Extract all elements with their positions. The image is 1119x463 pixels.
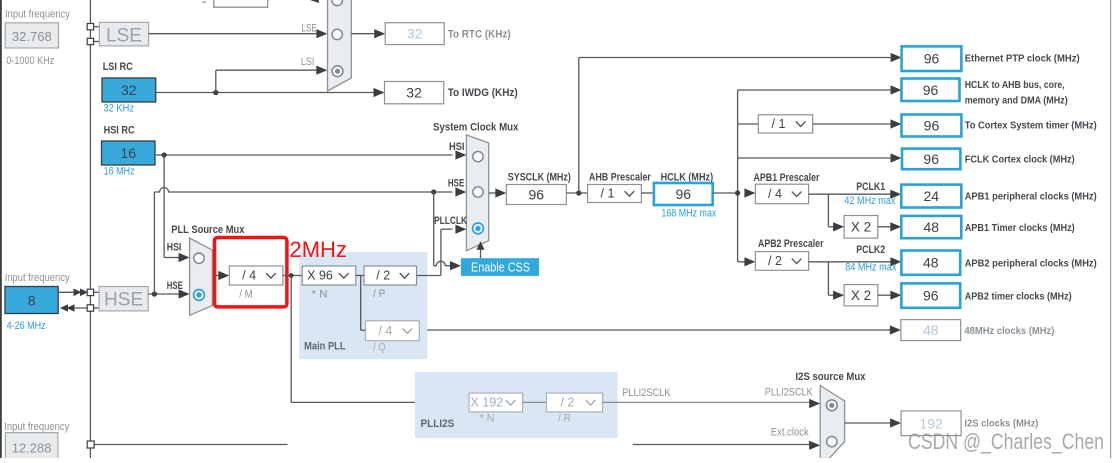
- svg-text:APB2 Prescaler: APB2 Prescaler: [758, 238, 824, 250]
- APB2 multiplier X2 box: [844, 285, 878, 306]
- svg-text:PLLI2SCLK: PLLI2SCLK: [622, 387, 671, 399]
- sysmux radio PLLCLK (selected): [473, 223, 484, 234]
- svg-text:4-26 MHz: 4-26 MHz: [7, 320, 46, 332]
- wire APB2 branch to X2: [828, 262, 844, 300]
- LSE port squares: [87, 24, 99, 45]
- svg-text:Ext.clock: Ext.clock: [771, 427, 809, 439]
- svg-text:APB1 Timer clocks (MHz): APB1 Timer clocks (MHz): [965, 222, 1075, 234]
- pin label HSE (PLL): [167, 280, 183, 292]
- wire LSI branch to RTC mux: [216, 66, 327, 93]
- wire APB2 prescaler to PCLK2: [809, 257, 902, 266]
- label APB1 Timer clocks (MHz): [965, 222, 1075, 234]
- title PLL Source Mux: [171, 224, 245, 236]
- title System Clock Mux: [433, 121, 519, 133]
- svg-text:X 192: X 192: [470, 396, 503, 410]
- wire HSI to system clock mux: [155, 150, 466, 159]
- pin label HSE: [448, 177, 465, 189]
- net label LSI: [301, 56, 315, 68]
- PLL source mux body: [190, 238, 213, 315]
- wire to HCLK AHB row: [738, 85, 902, 94]
- arrow into IWDG box: [374, 88, 385, 97]
- svg-text:HCLK to AHB bus, core,: HCLK to AHB bus, core,: [965, 79, 1065, 91]
- svg-text:HSI: HSI: [449, 141, 465, 153]
- I2S value box 192: [901, 411, 961, 436]
- APB2 prescaler dropdown /2: [755, 252, 808, 271]
- AHB bus vertical wire: [737, 90, 739, 262]
- wire to FCLK row: [738, 153, 902, 162]
- svg-text:/ 2: / 2: [560, 396, 574, 410]
- label HSI RC: [104, 125, 135, 137]
- svg-text:96: 96: [924, 118, 940, 134]
- svg-text:/ R: / R: [558, 412, 571, 424]
- wire SYSCLK to AHB prescaler: [566, 192, 587, 194]
- svg-text:/ 2: / 2: [376, 269, 390, 283]
- svg-text:System Clock Mux: System Clock Mux: [433, 121, 519, 133]
- svg-text:/ 4: / 4: [242, 269, 256, 283]
- svg-text:PLLCLK: PLLCLK: [434, 215, 467, 227]
- APB1 timer value box 48: [901, 216, 961, 238]
- svg-text:48: 48: [923, 255, 939, 271]
- junction HCLK-bus: [735, 190, 740, 195]
- svg-text:84 MHz max: 84 MHz max: [845, 261, 896, 273]
- left connector rail: [89, 0, 91, 458]
- svg-text:HSE: HSE: [167, 280, 183, 292]
- svg-text:Ethernet PTP clock (MHz): Ethernet PTP clock (MHz): [965, 53, 1080, 65]
- oscillator HSI RC box 16: [102, 141, 156, 165]
- partial arrow into RTC mux: [310, 0, 319, 3]
- label To RTC (KHz): [448, 29, 511, 41]
- *N multiplier dropdown X96: [302, 266, 356, 285]
- RTC mux radio LSE: [332, 29, 342, 39]
- wire ext clock segment 1: [94, 444, 287, 446]
- label 42 MHz max: [844, 195, 895, 207]
- svg-text:Input frequency: Input frequency: [5, 9, 70, 21]
- svg-text:LSE: LSE: [301, 23, 317, 35]
- /M divider dropdown: [229, 266, 283, 285]
- label APB1 peripheral clocks (MHz): [965, 191, 1097, 203]
- label PLLI2S: [421, 418, 455, 430]
- svg-text:48MHz clocks (MHz): 48MHz clocks (MHz): [964, 325, 1054, 337]
- right panel border: [1110, 0, 1111, 458]
- svg-text:X 2: X 2: [851, 220, 871, 235]
- wire Q output to 48MHz box: [419, 325, 901, 334]
- sysmux radio HSI: [473, 151, 483, 161]
- label SYSCLK (MHz): [508, 171, 571, 183]
- label HCLK to AHB bus core memory and DMA: [965, 79, 1068, 107]
- /Q divider dropdown (disabled): [366, 321, 420, 341]
- wire HSI branch down to PLL mux: [164, 155, 190, 262]
- svg-text:96: 96: [924, 51, 940, 67]
- label Main PLL: [304, 341, 346, 353]
- svg-text:FCLK Cortex clock (MHz): FCLK Cortex clock (MHz): [965, 153, 1075, 165]
- label 84 MHz max: [845, 261, 896, 273]
- Cortex prescaler dropdown /1: [758, 115, 812, 133]
- arrow into APB1 prescaler: [744, 188, 755, 197]
- svg-text:0-1000 KHz: 0-1000 KHz: [6, 55, 54, 67]
- svg-text:Input frequency: Input frequency: [5, 272, 70, 284]
- label Input frequency (HSE): [5, 272, 70, 284]
- svg-text:/ 4: / 4: [768, 187, 782, 201]
- svg-text:To Cortex System timer (MHz): To Cortex System timer (MHz): [965, 120, 1097, 132]
- I2S source mux body: [820, 386, 844, 459]
- label 168 MHz max: [661, 208, 716, 220]
- svg-text:16: 16: [120, 145, 136, 161]
- svg-text:12.288: 12.288: [12, 441, 52, 456]
- label 4-26 MHz: [7, 320, 46, 332]
- net label PCLK2: [856, 244, 885, 256]
- label / P: [373, 288, 385, 300]
- wire X2 to APB1 timer box: [878, 222, 902, 231]
- svg-text:memory and DMA (MHz): memory and DMA (MHz): [965, 94, 1068, 106]
- svg-text:AHB Prescaler: AHB Prescaler: [589, 171, 652, 183]
- HSE port squares: [87, 289, 99, 311]
- svg-text:96: 96: [923, 82, 939, 98]
- svg-text:/ 1: / 1: [601, 187, 615, 201]
- PLL mux radio HSE (selected): [194, 290, 205, 301]
- wire /P to PLLCLK input: [417, 225, 467, 276]
- svg-text:/ P: / P: [373, 288, 385, 300]
- wire Cortex prescaler to box: [813, 119, 902, 128]
- wire sysmux to SYSCLK box: [489, 188, 507, 197]
- annotation 2MHz: [290, 237, 347, 262]
- svg-text:2MHz: 2MHz: [290, 237, 347, 262]
- wire /M to *N: [283, 275, 302, 277]
- svg-text:APB1 Prescaler: APB1 Prescaler: [754, 172, 821, 184]
- PLLI2S *N multiplier dropdown X192: [469, 393, 523, 412]
- junction HSI branch: [162, 152, 167, 157]
- svg-text:Main PLL: Main PLL: [304, 341, 346, 353]
- svg-text:96: 96: [923, 151, 939, 167]
- svg-text:96: 96: [676, 186, 692, 202]
- sysmux radio HSE: [473, 187, 483, 197]
- Ethernet PTP value box 96: [902, 46, 962, 71]
- wire AHB prescaler to HCLK box: [641, 192, 654, 194]
- label 16 MHz: [104, 165, 135, 177]
- /R divider dropdown (disabled): [546, 393, 602, 412]
- label Input frequency (I2S ext): [4, 421, 69, 433]
- wire PLL input down to PLLI2S: [291, 276, 469, 403]
- svg-text:HSE: HSE: [448, 177, 465, 189]
- SYSCLK value box 96: [506, 185, 566, 205]
- wire /R to I2S mux: [603, 399, 821, 408]
- label 32 KHz: [104, 103, 135, 115]
- APB2 timer value box 96: [901, 283, 960, 307]
- svg-text:CSDN @_Charles_Chen: CSDN @_Charles_Chen: [908, 429, 1104, 454]
- junction HSE at sysmux: [431, 189, 436, 194]
- svg-text:24: 24: [924, 188, 940, 204]
- junction SYSCLK: [576, 190, 581, 195]
- svg-text:SYSCLK (MHz): SYSCLK (MHz): [508, 171, 571, 183]
- Cortex timer value box 96: [902, 115, 962, 137]
- I2S mux radio PLLI2SCLK (selected): [826, 400, 837, 411]
- svg-text:To RTC (KHz): To RTC (KHz): [448, 29, 511, 41]
- label To IWDG (KHz): [448, 87, 518, 99]
- LSE input frequency box 32.768: [5, 23, 58, 48]
- APB2 peripheral value box 48: [901, 251, 960, 275]
- label APB1 Prescaler: [754, 172, 821, 184]
- svg-text:PLLI2S: PLLI2S: [421, 418, 455, 430]
- pin label PLLI2SCLK: [765, 387, 814, 399]
- left panel border: [0, 0, 2, 458]
- RTC mux radio HSE_RTC (partial): [332, 0, 342, 6]
- svg-text:42 MHz max: 42 MHz max: [844, 195, 895, 207]
- pin label HSI (PLL): [167, 241, 182, 253]
- AHB prescaler dropdown /1: [588, 185, 642, 203]
- I2S ext input frequency box 12.288: [5, 433, 58, 460]
- pin label Ext.clock: [771, 427, 809, 439]
- /P divider dropdown: [364, 266, 417, 285]
- oscillator HSE: [99, 287, 148, 311]
- HSE input frequency box 8: [5, 287, 58, 314]
- svg-text:/ 2: / 2: [768, 254, 782, 268]
- svg-text:16 MHz: 16 MHz: [104, 165, 135, 177]
- label * N: [312, 289, 328, 301]
- junction PLL input: [289, 273, 294, 278]
- APB1 prescaler dropdown /4: [755, 184, 808, 204]
- svg-text:PCLK2: PCLK2: [856, 244, 885, 256]
- svg-text:HSE: HSE: [104, 290, 143, 311]
- svg-text:APB2 peripheral clocks (MHz): APB2 peripheral clocks (MHz): [965, 258, 1097, 270]
- partial label fragment: [202, 1, 206, 3]
- APB1 multiplier X2 box: [844, 216, 878, 239]
- label / Q: [373, 342, 386, 354]
- highlight red box: [215, 238, 287, 307]
- wire to Cortex timer prescaler: [738, 123, 759, 125]
- svg-text:* N: * N: [480, 412, 495, 424]
- wire *N to /P: [356, 275, 364, 277]
- HSE RTC divider box (partial, top edge): [214, 0, 268, 7]
- watermark CSDN: [908, 429, 1104, 454]
- wire APB1 prescaler to PCLK1: [809, 190, 902, 199]
- 48MHz value box 48: [901, 320, 961, 341]
- svg-text:32 KHz: 32 KHz: [104, 103, 135, 115]
- svg-text:PCLK1: PCLK1: [856, 181, 885, 193]
- RTC/LSE mux body: [328, 0, 352, 91]
- svg-text:Input frequency: Input frequency: [4, 421, 69, 433]
- svg-text:HSI: HSI: [167, 241, 182, 253]
- svg-text:32: 32: [121, 82, 137, 98]
- label 0-1000 KHz: [6, 55, 54, 67]
- label APB2 timer clocks (MHz): [965, 291, 1072, 303]
- I2S ext port square: [87, 441, 94, 448]
- wire X2 to APB2 timer box: [878, 291, 902, 300]
- svg-text:PLL Source Mux: PLL Source Mux: [171, 224, 245, 236]
- PLL mux radio HSI: [194, 253, 204, 263]
- label APB2 Prescaler: [758, 238, 824, 250]
- svg-text:LSE: LSE: [106, 26, 142, 47]
- svg-text:96: 96: [923, 288, 939, 304]
- wire LSE to RTC mux: [149, 29, 328, 38]
- svg-text:/ 1: / 1: [772, 117, 786, 131]
- svg-text:32: 32: [406, 85, 422, 101]
- HCLK value box 96: [654, 183, 713, 205]
- HCLK AHB value box 96: [902, 79, 960, 102]
- svg-text:X 96: X 96: [307, 269, 333, 283]
- label Ethernet PTP clock (MHz): [965, 53, 1080, 65]
- wire RTC mux to RTC box: [351, 29, 385, 38]
- svg-text:96: 96: [529, 187, 545, 203]
- wire HCLK to AHB bus: [713, 192, 738, 194]
- svg-text:/ M: / M: [239, 289, 253, 301]
- button Enable CSS: [461, 258, 539, 276]
- wire HSE branch up to system clock mux: [154, 187, 466, 294]
- svg-text:APB2 timer clocks (MHz): APB2 timer clocks (MHz): [965, 291, 1072, 303]
- label APB2 peripheral clocks (MHz): [965, 258, 1097, 270]
- HSE out/in double arrows: [58, 289, 88, 312]
- RTC mux radio LSI (selected): [332, 66, 343, 77]
- svg-text:PLLI2SCLK: PLLI2SCLK: [765, 387, 814, 399]
- svg-text:LSI: LSI: [301, 56, 315, 68]
- oscillator LSI RC box 32: [102, 78, 156, 102]
- label * N (PLLI2S): [480, 412, 495, 424]
- svg-text:8: 8: [28, 293, 36, 309]
- label Input frequency (LSE): [5, 9, 70, 21]
- svg-text:HCLK (MHz): HCLK (MHz): [661, 171, 714, 183]
- To RTC value box 32: [385, 23, 444, 45]
- net label PLLI2SCLK (mid): [622, 387, 671, 399]
- APB1 peripheral value box 24: [901, 185, 961, 208]
- label FCLK Cortex clock (MHz): [965, 153, 1075, 165]
- label HCLK (MHz): [661, 171, 714, 183]
- junction LSI branch: [213, 90, 218, 95]
- wire LSI to IWDG: [156, 92, 375, 94]
- pin label HSI: [449, 141, 465, 153]
- label To Cortex System timer (MHz): [965, 120, 1097, 132]
- wire APB1 branch to X2: [828, 194, 844, 231]
- svg-text:I2S clocks (MHz): I2S clocks (MHz): [964, 418, 1038, 430]
- PLLI2S panel: [415, 372, 618, 438]
- I2S mux radio Ext.clock: [827, 436, 837, 446]
- label LSI RC: [103, 61, 133, 73]
- svg-text:HSI RC: HSI RC: [104, 125, 135, 137]
- wire HSE down to Enable CSS: [434, 192, 461, 270]
- svg-text:* N: * N: [312, 289, 328, 301]
- svg-text:To IWDG (KHz): To IWDG (KHz): [448, 87, 518, 99]
- svg-text:I2S source Mux: I2S source Mux: [796, 371, 867, 383]
- label AHB Prescaler: [589, 171, 652, 183]
- svg-text:32.768: 32.768: [12, 29, 52, 44]
- svg-text:APB1 peripheral clocks (MHz): APB1 peripheral clocks (MHz): [965, 191, 1097, 203]
- wire I2S mux to I2S box: [845, 418, 902, 427]
- To IWDG value box 32: [385, 82, 444, 104]
- svg-text:X 2: X 2: [851, 288, 871, 303]
- wire bus to APB2 prescaler: [738, 257, 756, 266]
- label / M: [239, 289, 253, 301]
- svg-text:48: 48: [924, 219, 940, 235]
- junction HSE branch: [152, 291, 157, 296]
- svg-text:Enable CSS: Enable CSS: [471, 260, 530, 274]
- label 48MHz clocks (MHz): [964, 325, 1054, 337]
- label I2S clocks (MHz): [964, 418, 1038, 430]
- svg-text:/ Q: / Q: [373, 342, 386, 354]
- wire X192 to /R: [523, 401, 547, 403]
- FCLK value box 96: [902, 149, 960, 170]
- net label LSE: [301, 23, 317, 35]
- wire to /Q divider: [361, 276, 366, 331]
- wire HSE to PLL mux: [148, 289, 189, 298]
- arrow Enable CSS to sysmux: [477, 241, 485, 258]
- svg-text:LSI RC: LSI RC: [103, 61, 133, 73]
- title I2S source Mux: [796, 371, 867, 383]
- system clock mux body: [466, 135, 488, 251]
- wire PLL mux to /M divider: [212, 271, 229, 280]
- label / R: [558, 412, 571, 424]
- net label PCLK1: [856, 181, 885, 193]
- main PLL panel: [299, 252, 427, 359]
- pin label PLLCLK: [434, 215, 467, 227]
- wire SYSCLK up to Ethernet PTP: [579, 53, 902, 193]
- oscillator LSE: [99, 22, 148, 46]
- svg-text:48: 48: [923, 322, 939, 338]
- svg-text:/ 4: / 4: [378, 324, 392, 338]
- wire ext clock segment 2: [633, 441, 820, 450]
- svg-text:168 MHz max: 168 MHz max: [661, 208, 716, 220]
- svg-text:32: 32: [407, 26, 423, 42]
